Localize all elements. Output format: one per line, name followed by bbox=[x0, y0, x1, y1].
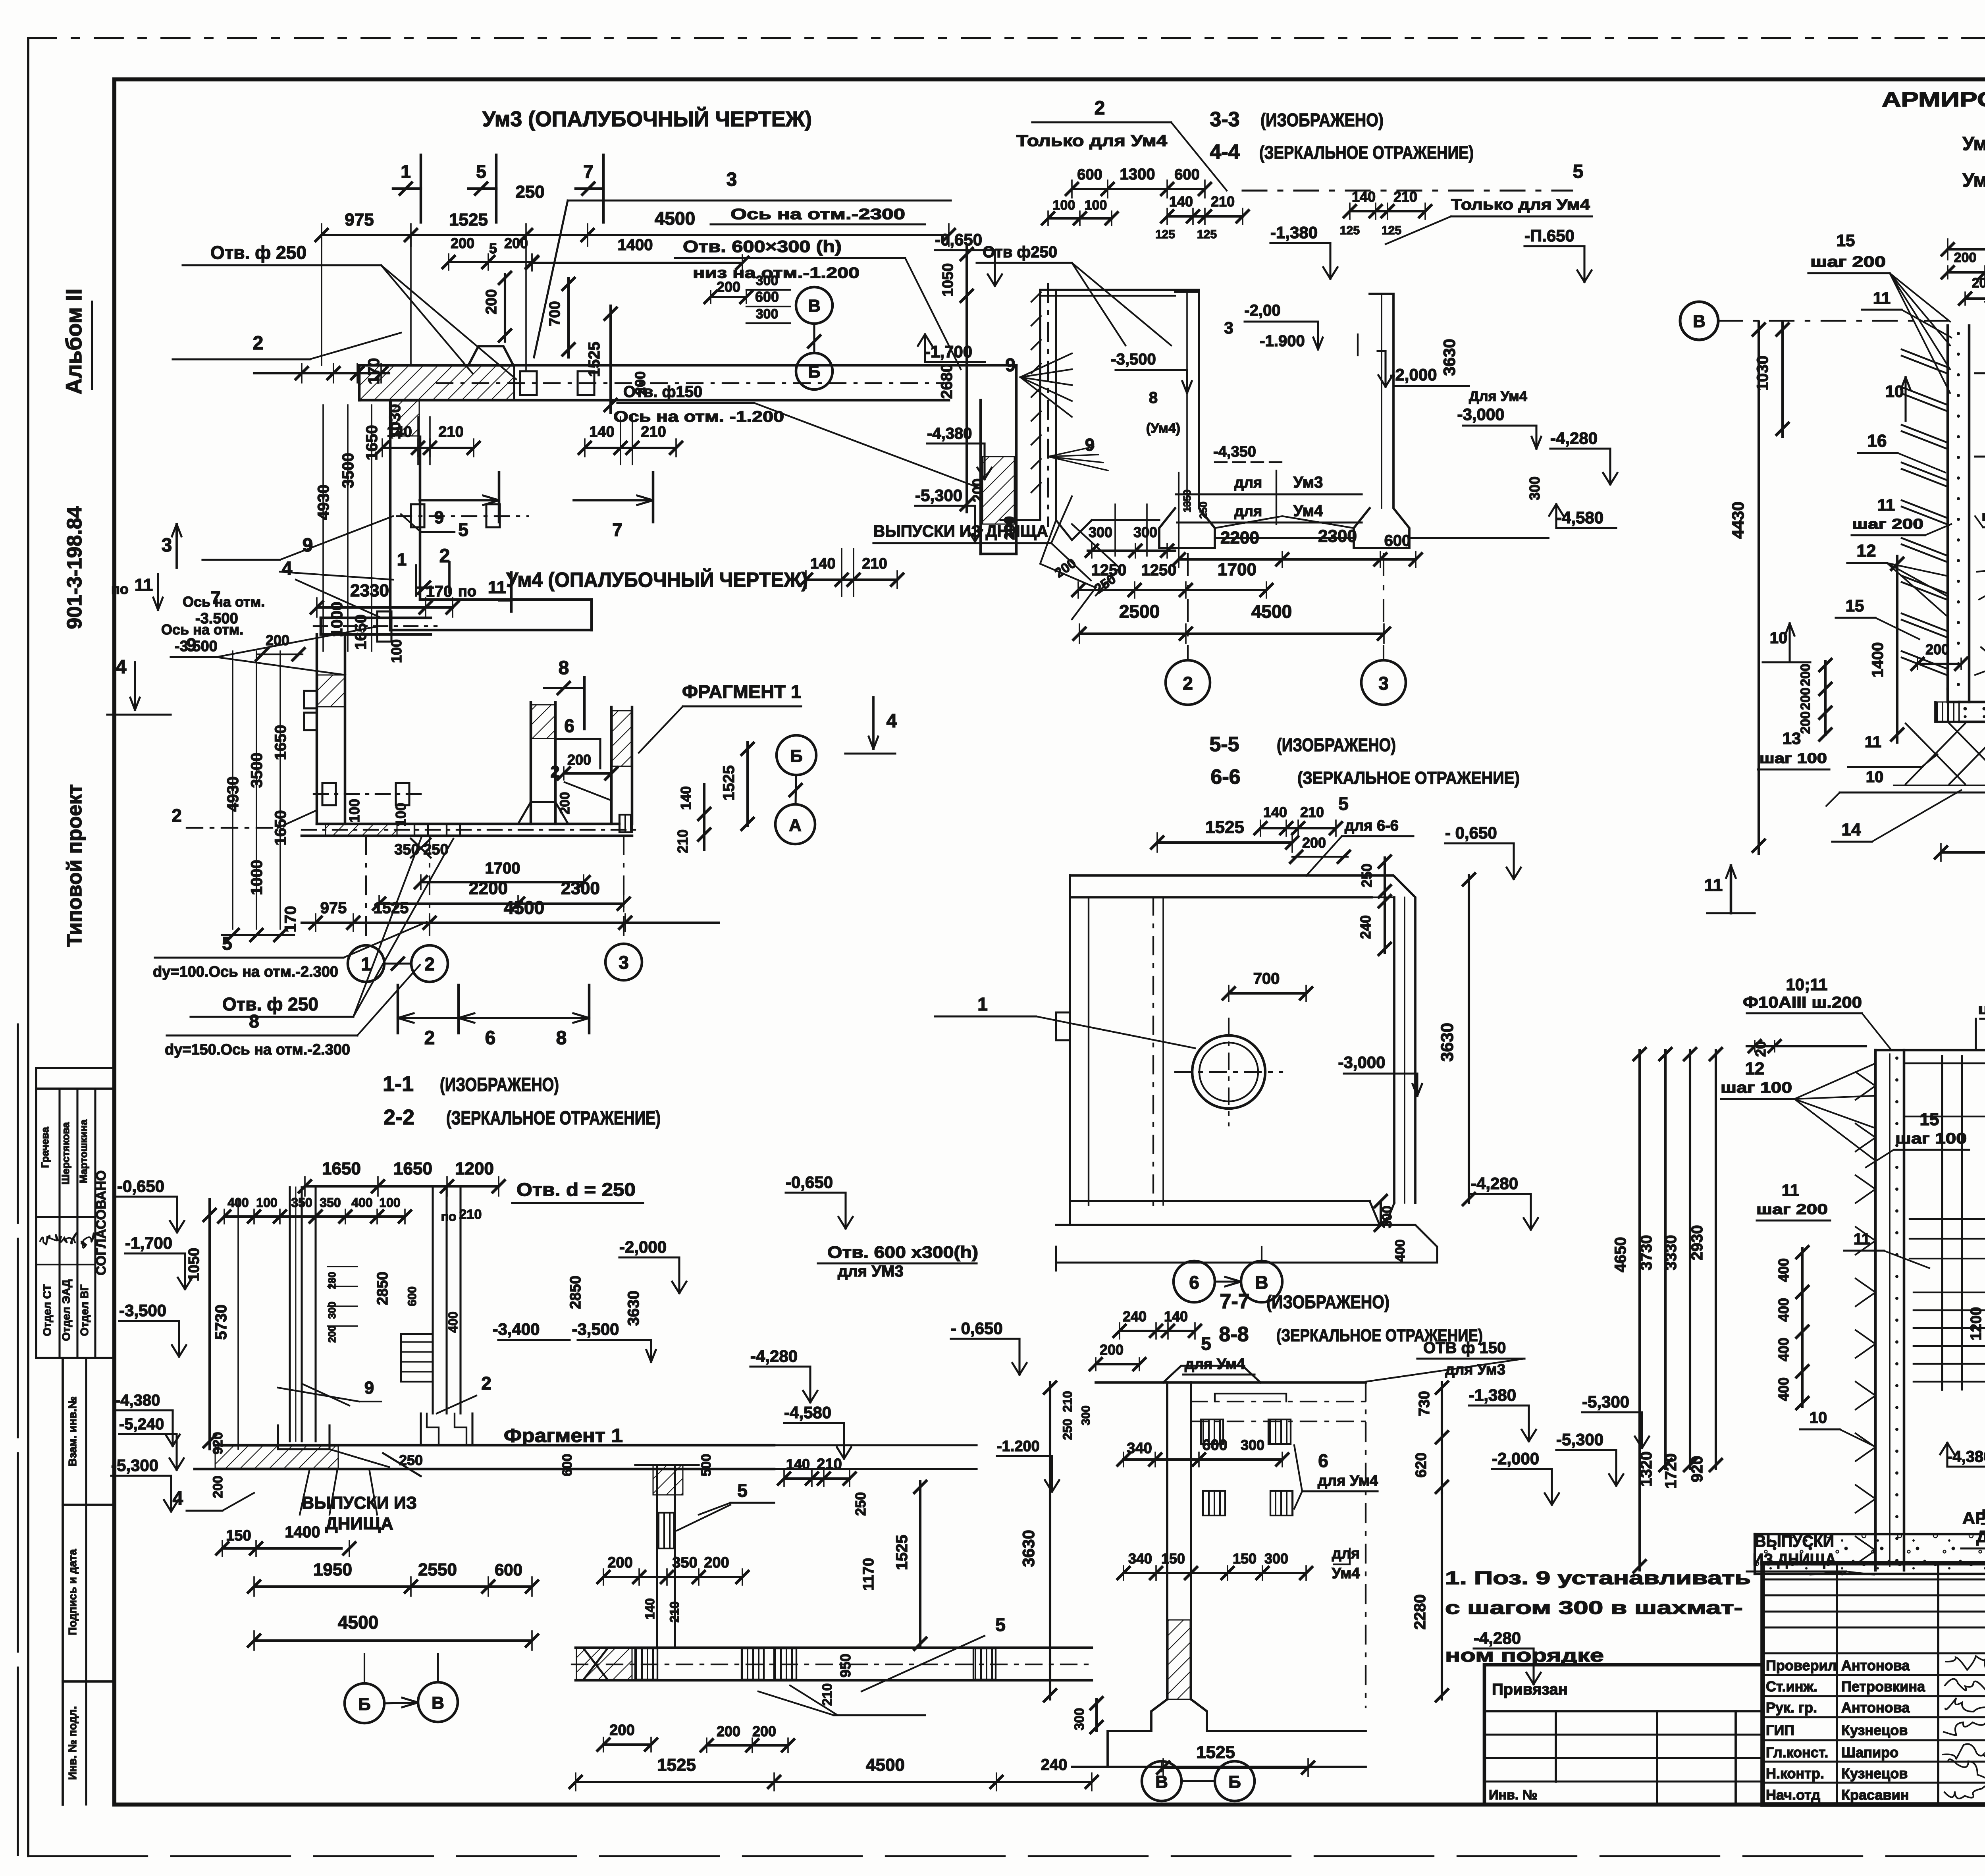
svg-text:8: 8 bbox=[559, 657, 569, 679]
svg-text:11: 11 bbox=[488, 578, 507, 597]
svg-text:Привязан: Привязан bbox=[1492, 1681, 1568, 1698]
svg-text:140: 140 bbox=[1263, 804, 1287, 820]
svg-text:150: 150 bbox=[226, 1527, 251, 1544]
svg-text:для 6-6: для 6-6 bbox=[1345, 817, 1399, 834]
svg-text:300: 300 bbox=[1079, 1406, 1093, 1425]
svg-text:600: 600 bbox=[495, 1560, 522, 1579]
svg-text:dy=150.Ось на отм.-2.300: dy=150.Ось на отм.-2.300 bbox=[165, 1041, 350, 1058]
svg-text:ИЗ ДНИЩА: ИЗ ДНИЩА bbox=[1753, 1550, 1836, 1569]
svg-text:200: 200 bbox=[607, 1554, 632, 1571]
svg-text:-5,300: -5,300 bbox=[1556, 1430, 1603, 1449]
svg-text:500: 500 bbox=[699, 1454, 714, 1477]
svg-text:Б: Б bbox=[808, 362, 821, 382]
svg-text:Ум3: Ум3 bbox=[1293, 474, 1323, 491]
svg-text:9: 9 bbox=[364, 1378, 374, 1398]
svg-text:(ЗЕРКАЛЬНОЕ ОТРАЖЕНИЕ): (ЗЕРКАЛЬНОЕ ОТРАЖЕНИЕ) bbox=[1259, 142, 1474, 163]
svg-text:Ум4: Ум4 bbox=[1962, 170, 1985, 191]
svg-text:200: 200 bbox=[326, 1325, 338, 1342]
svg-text:Ф10АIII ш.200: Ф10АIII ш.200 bbox=[1743, 994, 1862, 1011]
svg-text:1. Поз. 9 устанавливать: 1. Поз. 9 устанавливать bbox=[1445, 1568, 1751, 1588]
svg-text:125: 125 bbox=[1382, 224, 1401, 237]
svg-text:600: 600 bbox=[1174, 166, 1199, 183]
svg-text:3630: 3630 bbox=[1438, 1023, 1457, 1062]
svg-text:(ИЗОБРАЖЕНО): (ИЗОБРАЖЕНО) bbox=[1266, 1292, 1389, 1312]
svg-text:Мартошкина: Мартошкина bbox=[77, 1119, 89, 1184]
svg-text:11: 11 bbox=[1704, 875, 1723, 895]
svg-text:210: 210 bbox=[459, 1207, 482, 1222]
svg-text:Только для Ум4: Только для Ум4 bbox=[1451, 197, 1590, 213]
svg-text:250: 250 bbox=[1197, 501, 1209, 519]
svg-text:2: 2 bbox=[253, 333, 264, 354]
svg-text:Б: Б bbox=[790, 746, 803, 766]
svg-text:Ум4: Ум4 bbox=[1332, 1565, 1360, 1582]
svg-text:240: 240 bbox=[1357, 915, 1374, 939]
svg-text:-0,650: -0,650 bbox=[935, 230, 982, 249]
svg-text:3: 3 bbox=[727, 169, 737, 190]
svg-text:-1,380: -1,380 bbox=[1270, 223, 1318, 242]
svg-text:1650: 1650 bbox=[352, 615, 370, 650]
svg-text:140: 140 bbox=[1164, 1308, 1188, 1325]
svg-text:200: 200 bbox=[1954, 250, 1977, 265]
svg-text:Кузнецов: Кузнецов bbox=[1841, 1722, 1908, 1738]
svg-text:1525: 1525 bbox=[1196, 1743, 1235, 1762]
svg-text:-1.900: -1.900 bbox=[1260, 332, 1305, 350]
svg-text:1350: 1350 bbox=[1181, 490, 1193, 513]
svg-text:1700: 1700 bbox=[1218, 560, 1257, 579]
svg-text:для Ум4: для Ум4 bbox=[1185, 1356, 1245, 1373]
svg-text:7: 7 bbox=[612, 519, 622, 540]
svg-text:1: 1 bbox=[401, 161, 411, 182]
svg-text:140: 140 bbox=[387, 424, 412, 440]
svg-text:140: 140 bbox=[810, 555, 835, 572]
svg-text:9: 9 bbox=[186, 634, 197, 655]
svg-text:200: 200 bbox=[210, 1476, 225, 1498]
svg-text:150: 150 bbox=[1233, 1550, 1257, 1567]
svg-text:300: 300 bbox=[1133, 524, 1157, 540]
svg-text:Инв. №: Инв. № bbox=[1489, 1787, 1538, 1803]
svg-text:11: 11 bbox=[1854, 1230, 1870, 1248]
svg-text:300: 300 bbox=[756, 307, 779, 322]
svg-text:2: 2 bbox=[550, 762, 559, 781]
svg-text:400: 400 bbox=[1393, 1240, 1408, 1262]
svg-text:210: 210 bbox=[667, 1601, 682, 1622]
svg-text:340: 340 bbox=[1128, 1550, 1152, 1567]
svg-text:Только для Ум4: Только для Ум4 bbox=[1016, 132, 1168, 150]
svg-text:1250: 1250 bbox=[1141, 561, 1177, 579]
svg-text:700: 700 bbox=[1253, 970, 1280, 987]
svg-text:200: 200 bbox=[1302, 835, 1326, 851]
svg-text:2500: 2500 bbox=[1119, 601, 1160, 622]
svg-text:300: 300 bbox=[1089, 524, 1112, 540]
svg-text:шаг 200: шаг 200 bbox=[1852, 516, 1923, 532]
svg-text:600: 600 bbox=[560, 1454, 575, 1477]
svg-text:-5,300: -5,300 bbox=[111, 1456, 158, 1475]
svg-text:8: 8 bbox=[556, 1028, 567, 1049]
svg-text:12: 12 bbox=[1745, 1059, 1765, 1078]
svg-text:400: 400 bbox=[1775, 1377, 1792, 1401]
svg-text:1525: 1525 bbox=[449, 210, 488, 229]
svg-text:200: 200 bbox=[483, 289, 500, 314]
svg-text:210: 210 bbox=[438, 424, 463, 440]
svg-text:1300: 1300 bbox=[1120, 166, 1155, 183]
svg-text:-3,000: -3,000 bbox=[1457, 405, 1504, 424]
svg-text:125: 125 bbox=[1197, 228, 1217, 241]
svg-text:-5,240: -5,240 bbox=[119, 1415, 164, 1433]
svg-text:210: 210 bbox=[641, 424, 666, 440]
svg-text:300: 300 bbox=[326, 1301, 338, 1319]
svg-text:5: 5 bbox=[1338, 793, 1349, 814]
svg-text:1: 1 bbox=[977, 994, 988, 1014]
svg-text:200: 200 bbox=[1100, 1342, 1124, 1358]
svg-text:шаг 200: шаг 200 bbox=[1981, 508, 1985, 524]
svg-text:350: 350 bbox=[672, 1554, 697, 1571]
svg-text:АРМИРОВАНИЕ СТЕН В ОСЯХ: АРМИРОВАНИЕ СТЕН В ОСЯХ 1-2 bbox=[1882, 88, 1985, 111]
svg-text:Фрагмент 1: Фрагмент 1 bbox=[504, 1425, 623, 1446]
svg-text:1: 1 bbox=[397, 550, 407, 569]
svg-text:1320: 1320 bbox=[1638, 1452, 1655, 1487]
svg-text:-4,380: -4,380 bbox=[115, 1392, 160, 1409]
svg-text:1525: 1525 bbox=[374, 899, 409, 917]
svg-text:5: 5 bbox=[1573, 161, 1584, 182]
svg-text:-3,500: -3,500 bbox=[572, 1320, 619, 1338]
svg-text:5: 5 bbox=[458, 519, 468, 540]
svg-text:300: 300 bbox=[1072, 1708, 1087, 1731]
svg-text:2: 2 bbox=[172, 805, 182, 826]
svg-text:dy=100.Ось на отм.-2.300: dy=100.Ось на отм.-2.300 bbox=[153, 964, 338, 980]
svg-text:400: 400 bbox=[351, 1195, 372, 1210]
svg-text:280: 280 bbox=[326, 1272, 338, 1289]
svg-text:100: 100 bbox=[346, 799, 362, 823]
svg-text:по: по bbox=[458, 583, 476, 600]
svg-text:125: 125 bbox=[1340, 224, 1360, 237]
svg-text:950: 950 bbox=[837, 1654, 854, 1677]
svg-text:4500: 4500 bbox=[338, 1612, 378, 1633]
svg-text:15: 15 bbox=[1846, 596, 1864, 615]
svg-text:4650: 4650 bbox=[1612, 1237, 1629, 1273]
svg-text:шаг 100: шаг 100 bbox=[1760, 750, 1827, 766]
svg-text:200: 200 bbox=[1925, 641, 1949, 657]
svg-text:1720: 1720 bbox=[1662, 1454, 1680, 1489]
svg-text:1030: 1030 bbox=[1754, 356, 1771, 391]
svg-text:В: В bbox=[1155, 1772, 1168, 1792]
svg-text:200: 200 bbox=[717, 279, 740, 295]
svg-text:5: 5 bbox=[1201, 1333, 1211, 1354]
svg-text:2680: 2680 bbox=[938, 364, 956, 399]
svg-text:Красавин: Красавин bbox=[1841, 1787, 1909, 1803]
svg-text:4500: 4500 bbox=[866, 1755, 905, 1775]
svg-text:1700: 1700 bbox=[485, 860, 520, 877]
svg-text:1650: 1650 bbox=[393, 1159, 432, 1178]
svg-text:ВЫПУСКИ ИЗ ДНИЩА: ВЫПУСКИ ИЗ ДНИЩА bbox=[873, 522, 1048, 540]
svg-text:200: 200 bbox=[717, 1723, 740, 1739]
svg-text:ОТВ ф 150: ОТВ ф 150 bbox=[1423, 1339, 1506, 1357]
svg-text:1400: 1400 bbox=[285, 1523, 320, 1541]
svg-text:Подпись и дата: Подпись и дата bbox=[66, 1549, 79, 1635]
svg-text:-1,380: -1,380 bbox=[1469, 1386, 1516, 1404]
svg-text:100: 100 bbox=[1085, 198, 1107, 213]
svg-text:для: для bbox=[1234, 503, 1262, 520]
svg-text:2300: 2300 bbox=[561, 879, 600, 898]
svg-text:2330: 2330 bbox=[350, 581, 389, 600]
svg-text:для: для bbox=[1234, 474, 1262, 491]
svg-text:Отдел СТ: Отдел СТ bbox=[41, 1284, 53, 1336]
svg-text:10: 10 bbox=[1885, 382, 1904, 401]
svg-text:200: 200 bbox=[1972, 276, 1985, 291]
svg-text:15: 15 bbox=[1920, 1110, 1939, 1129]
svg-text:АРМАТУРА: АРМАТУРА bbox=[1962, 1509, 1985, 1527]
svg-text:шаг 100: шаг 100 bbox=[1895, 1130, 1967, 1147]
svg-text:2: 2 bbox=[424, 1028, 435, 1049]
svg-text:1400: 1400 bbox=[1869, 642, 1887, 678]
svg-text:5: 5 bbox=[737, 1480, 748, 1501]
svg-text:(ИЗОБРАЖЕНО): (ИЗОБРАЖЕНО) bbox=[1260, 110, 1384, 130]
svg-text:5: 5 bbox=[995, 1614, 1006, 1635]
svg-text:300: 300 bbox=[1264, 1550, 1288, 1567]
svg-text:400: 400 bbox=[1775, 1258, 1792, 1282]
svg-text:13: 13 bbox=[1783, 729, 1801, 748]
svg-text:- 0,650: - 0,650 bbox=[951, 1319, 1003, 1338]
svg-text:8: 8 bbox=[1149, 389, 1158, 407]
svg-text:-3,400: -3,400 bbox=[492, 1320, 540, 1338]
svg-text:975: 975 bbox=[320, 899, 347, 917]
svg-text:4500: 4500 bbox=[655, 208, 695, 229]
svg-text:11: 11 bbox=[1877, 496, 1895, 514]
svg-text:-3,500: -3,500 bbox=[1111, 351, 1156, 368]
svg-text:-4,280: -4,280 bbox=[750, 1347, 798, 1365]
svg-text:-П.650: -П.650 bbox=[1524, 226, 1575, 245]
svg-text:шаг 100: шаг 100 bbox=[1721, 1080, 1792, 1096]
svg-text:3: 3 bbox=[162, 535, 172, 556]
svg-text:170: 170 bbox=[365, 358, 383, 385]
svg-text:210: 210 bbox=[862, 555, 887, 572]
svg-text:2-2: 2-2 bbox=[384, 1105, 414, 1129]
svg-text:11: 11 bbox=[1873, 289, 1891, 307]
svg-text:140: 140 bbox=[643, 1598, 657, 1619]
svg-text:9: 9 bbox=[434, 508, 444, 527]
svg-text:по: по bbox=[441, 1209, 457, 1224]
svg-text:ВЫПУСКИ: ВЫПУСКИ bbox=[1755, 1532, 1834, 1550]
svg-text:4: 4 bbox=[173, 1488, 183, 1509]
svg-text:ДНИЩА: ДНИЩА bbox=[1976, 1527, 1985, 1546]
svg-text:Шапиро: Шапиро bbox=[1841, 1744, 1898, 1760]
svg-text:920: 920 bbox=[1688, 1456, 1706, 1483]
svg-text:170: 170 bbox=[282, 906, 299, 933]
svg-text:240: 240 bbox=[1123, 1308, 1147, 1325]
svg-text:210: 210 bbox=[1211, 193, 1235, 210]
svg-text:1050: 1050 bbox=[186, 1248, 202, 1282]
svg-text:(ИЗОБРАЖЕНО): (ИЗОБРАЖЕНО) bbox=[440, 1074, 559, 1095]
svg-text:(Ум4): (Ум4) bbox=[1146, 421, 1180, 436]
svg-text:-4,280: -4,280 bbox=[1474, 1629, 1521, 1647]
svg-text:11: 11 bbox=[1782, 1181, 1799, 1199]
svg-text:1170: 1170 bbox=[860, 1558, 877, 1591]
svg-text:-4,580: -4,580 bbox=[1556, 508, 1603, 527]
svg-text:Гл.конст.: Гл.конст. bbox=[1766, 1744, 1828, 1760]
svg-text:2550: 2550 bbox=[418, 1560, 457, 1579]
svg-text:400: 400 bbox=[1775, 1338, 1792, 1361]
svg-text:730: 730 bbox=[1416, 1391, 1433, 1416]
svg-text:шаг 200: шаг 200 bbox=[1756, 1201, 1828, 1217]
svg-text:200: 200 bbox=[1052, 555, 1079, 581]
svg-text:6: 6 bbox=[564, 715, 574, 736]
svg-text:(ЗЕРКАЛЬНОЕ ОТРАЖЕНИЕ): (ЗЕРКАЛЬНОЕ ОТРАЖЕНИЕ) bbox=[446, 1108, 661, 1129]
svg-text:1: 1 bbox=[361, 954, 371, 974]
svg-text:100: 100 bbox=[388, 639, 405, 663]
svg-text:200: 200 bbox=[704, 1554, 729, 1571]
svg-text:Антонова: Антонова bbox=[1841, 1699, 1910, 1716]
svg-text:9: 9 bbox=[1005, 355, 1016, 375]
svg-text:1250: 1250 bbox=[1091, 561, 1127, 579]
svg-text:8-8: 8-8 bbox=[1219, 1323, 1249, 1346]
svg-text:1-1: 1-1 bbox=[383, 1072, 414, 1096]
svg-text:200: 200 bbox=[1798, 664, 1813, 686]
svg-text:2280: 2280 bbox=[1411, 1595, 1429, 1630]
svg-text:-4,580: -4,580 bbox=[784, 1403, 831, 1422]
svg-text:6: 6 bbox=[1318, 1450, 1328, 1471]
svg-text:Б: Б bbox=[358, 1695, 371, 1714]
svg-text:11: 11 bbox=[1865, 733, 1881, 751]
svg-text:6: 6 bbox=[485, 1028, 496, 1049]
svg-text:шаг 200: шаг 200 bbox=[1978, 1001, 1985, 1018]
svg-text:4500: 4500 bbox=[1251, 601, 1292, 622]
svg-text:Взам. инв.№: Взам. инв.№ bbox=[66, 1396, 79, 1466]
svg-text:3630: 3630 bbox=[625, 1291, 642, 1326]
svg-text:600: 600 bbox=[1077, 166, 1102, 183]
svg-text:Типовой проект: Типовой проект bbox=[63, 784, 86, 947]
svg-text:4-4: 4-4 bbox=[1210, 141, 1239, 164]
svg-text:4: 4 bbox=[282, 558, 293, 579]
svg-text:100: 100 bbox=[256, 1195, 277, 1210]
svg-text:-3.500: -3.500 bbox=[195, 610, 238, 627]
svg-text:10: 10 bbox=[1866, 768, 1884, 786]
svg-text:5-5: 5-5 bbox=[1209, 733, 1239, 756]
svg-text:210: 210 bbox=[675, 829, 691, 853]
svg-text:5730: 5730 bbox=[212, 1305, 230, 1340]
svg-text:(ЗЕРКАЛЬНОЕ ОТРАЖЕНИЕ): (ЗЕРКАЛЬНОЕ ОТРАЖЕНИЕ) bbox=[1297, 768, 1520, 788]
svg-text:Ось на отм.: Ось на отм. bbox=[183, 594, 265, 610]
svg-text:-0,650: -0,650 bbox=[117, 1177, 164, 1195]
svg-text:Грачева: Грачева bbox=[39, 1127, 51, 1168]
svg-text:В: В bbox=[432, 1693, 444, 1713]
svg-text:600: 600 bbox=[406, 1286, 419, 1306]
svg-text:Ум4 (ОПАЛУБОЧНЫЙ ЧЕРТЕЖ): Ум4 (ОПАЛУБОЧНЫЙ ЧЕРТЕЖ) bbox=[506, 568, 808, 592]
svg-text:1050: 1050 bbox=[940, 263, 956, 297]
svg-text:210: 210 bbox=[1060, 1391, 1075, 1412]
svg-text:3-3: 3-3 bbox=[1210, 108, 1239, 131]
svg-text:11: 11 bbox=[135, 575, 153, 595]
svg-text:-2,000: -2,000 bbox=[1389, 365, 1437, 384]
svg-text:200: 200 bbox=[609, 1722, 634, 1739]
svg-text:250: 250 bbox=[515, 182, 544, 202]
svg-text:140: 140 bbox=[1169, 193, 1193, 210]
svg-text:3630: 3630 bbox=[1019, 1530, 1038, 1567]
svg-text:200: 200 bbox=[266, 632, 289, 648]
svg-text:3: 3 bbox=[1378, 673, 1389, 694]
svg-text:Отв. ф 250: Отв. ф 250 bbox=[222, 994, 318, 1014]
svg-text:-5,300: -5,300 bbox=[915, 486, 962, 505]
svg-text:с шагом 300 в шахмат-: с шагом 300 в шахмат- bbox=[1445, 1597, 1743, 1618]
svg-text:по: по bbox=[111, 581, 129, 597]
svg-text:12: 12 bbox=[1857, 541, 1876, 561]
svg-text:Проверил: Проверил bbox=[1766, 1657, 1837, 1674]
svg-text:-2,000: -2,000 bbox=[619, 1238, 667, 1256]
svg-text:Рук. гр.: Рук. гр. bbox=[1766, 1699, 1817, 1716]
svg-text:200: 200 bbox=[1798, 688, 1813, 710]
svg-text:3630: 3630 bbox=[1440, 339, 1459, 376]
svg-text:400: 400 bbox=[1775, 1298, 1792, 1322]
svg-text:210: 210 bbox=[820, 1683, 835, 1706]
svg-text:В: В bbox=[1255, 1272, 1268, 1293]
svg-text:4500: 4500 bbox=[504, 897, 544, 918]
svg-text:для УМ3: для УМ3 bbox=[838, 1263, 904, 1280]
svg-text:3: 3 bbox=[1224, 318, 1233, 337]
svg-text:(ИЗОБРАЖЕНО): (ИЗОБРАЖЕНО) bbox=[1277, 735, 1396, 755]
svg-text:В: В bbox=[808, 296, 821, 316]
svg-text:350: 350 bbox=[320, 1195, 341, 1210]
svg-text:ДНИЩА: ДНИЩА bbox=[325, 1514, 393, 1533]
svg-text:-3,000: -3,000 bbox=[1338, 1053, 1385, 1072]
svg-text:-0,650: -0,650 bbox=[786, 1173, 833, 1192]
svg-text:200: 200 bbox=[557, 792, 572, 815]
svg-text:5: 5 bbox=[222, 933, 232, 954]
svg-text:6-6: 6-6 bbox=[1210, 765, 1240, 789]
svg-text:Отв. d = 250: Отв. d = 250 bbox=[516, 1179, 636, 1200]
svg-text:-4,280: -4,280 bbox=[1550, 429, 1598, 447]
svg-text:для: для bbox=[1332, 1545, 1360, 1562]
svg-text:Альбом II: Альбом II bbox=[61, 289, 86, 395]
svg-text:1525: 1525 bbox=[586, 342, 603, 377]
svg-text:240: 240 bbox=[1041, 1756, 1068, 1774]
svg-text:1650: 1650 bbox=[322, 1159, 361, 1178]
svg-text:7-7: 7-7 bbox=[1220, 1290, 1249, 1313]
svg-text:100: 100 bbox=[379, 1195, 400, 1210]
svg-text:-1.200: -1.200 bbox=[997, 1438, 1040, 1455]
svg-text:В: В bbox=[1693, 312, 1706, 331]
svg-text:250: 250 bbox=[1060, 1419, 1075, 1440]
svg-text:СОГЛАСОВАНО: СОГЛАСОВАНО bbox=[94, 1170, 109, 1276]
svg-text:6: 6 bbox=[1189, 1272, 1199, 1293]
svg-text:А: А bbox=[789, 816, 802, 835]
svg-text:5: 5 bbox=[476, 161, 486, 182]
svg-text:-2,00: -2,00 bbox=[1244, 302, 1280, 319]
svg-text:4430: 4430 bbox=[1729, 501, 1747, 538]
svg-text:1200: 1200 bbox=[455, 1159, 494, 1178]
svg-text:-4,380: -4,380 bbox=[927, 425, 972, 442]
svg-text:Отв. 600 х300(h): Отв. 600 х300(h) bbox=[827, 1243, 978, 1261]
svg-text:Антонова: Антонова bbox=[1841, 1657, 1910, 1674]
svg-text:140: 140 bbox=[786, 1456, 810, 1472]
svg-text:шаг 200: шаг 200 bbox=[1810, 254, 1886, 270]
svg-text:Отв ф250: Отв ф250 bbox=[983, 243, 1057, 261]
svg-text:1525: 1525 bbox=[893, 1535, 911, 1570]
svg-text:-4,350: -4,350 bbox=[1213, 443, 1256, 460]
svg-text:210: 210 bbox=[1300, 804, 1324, 820]
svg-text:14: 14 bbox=[1842, 820, 1861, 839]
svg-text:200: 200 bbox=[504, 235, 528, 251]
svg-text:2: 2 bbox=[424, 954, 435, 974]
svg-text:1400: 1400 bbox=[618, 236, 653, 254]
svg-text:-5,300: -5,300 bbox=[1582, 1392, 1629, 1411]
svg-text:7: 7 bbox=[583, 161, 594, 182]
svg-text:ном порядке: ном порядке bbox=[1445, 1645, 1604, 1666]
svg-text:140: 140 bbox=[678, 786, 694, 810]
svg-text:для Ум3: для Ум3 bbox=[1445, 1361, 1505, 1378]
svg-text:1950: 1950 bbox=[313, 1560, 352, 1579]
svg-text:Н.контр.: Н.контр. bbox=[1766, 1765, 1824, 1782]
svg-text:200: 200 bbox=[451, 235, 474, 251]
svg-text:Ум3: Ум3 bbox=[1962, 133, 1985, 154]
svg-text:Кузнецов: Кузнецов bbox=[1841, 1765, 1908, 1782]
